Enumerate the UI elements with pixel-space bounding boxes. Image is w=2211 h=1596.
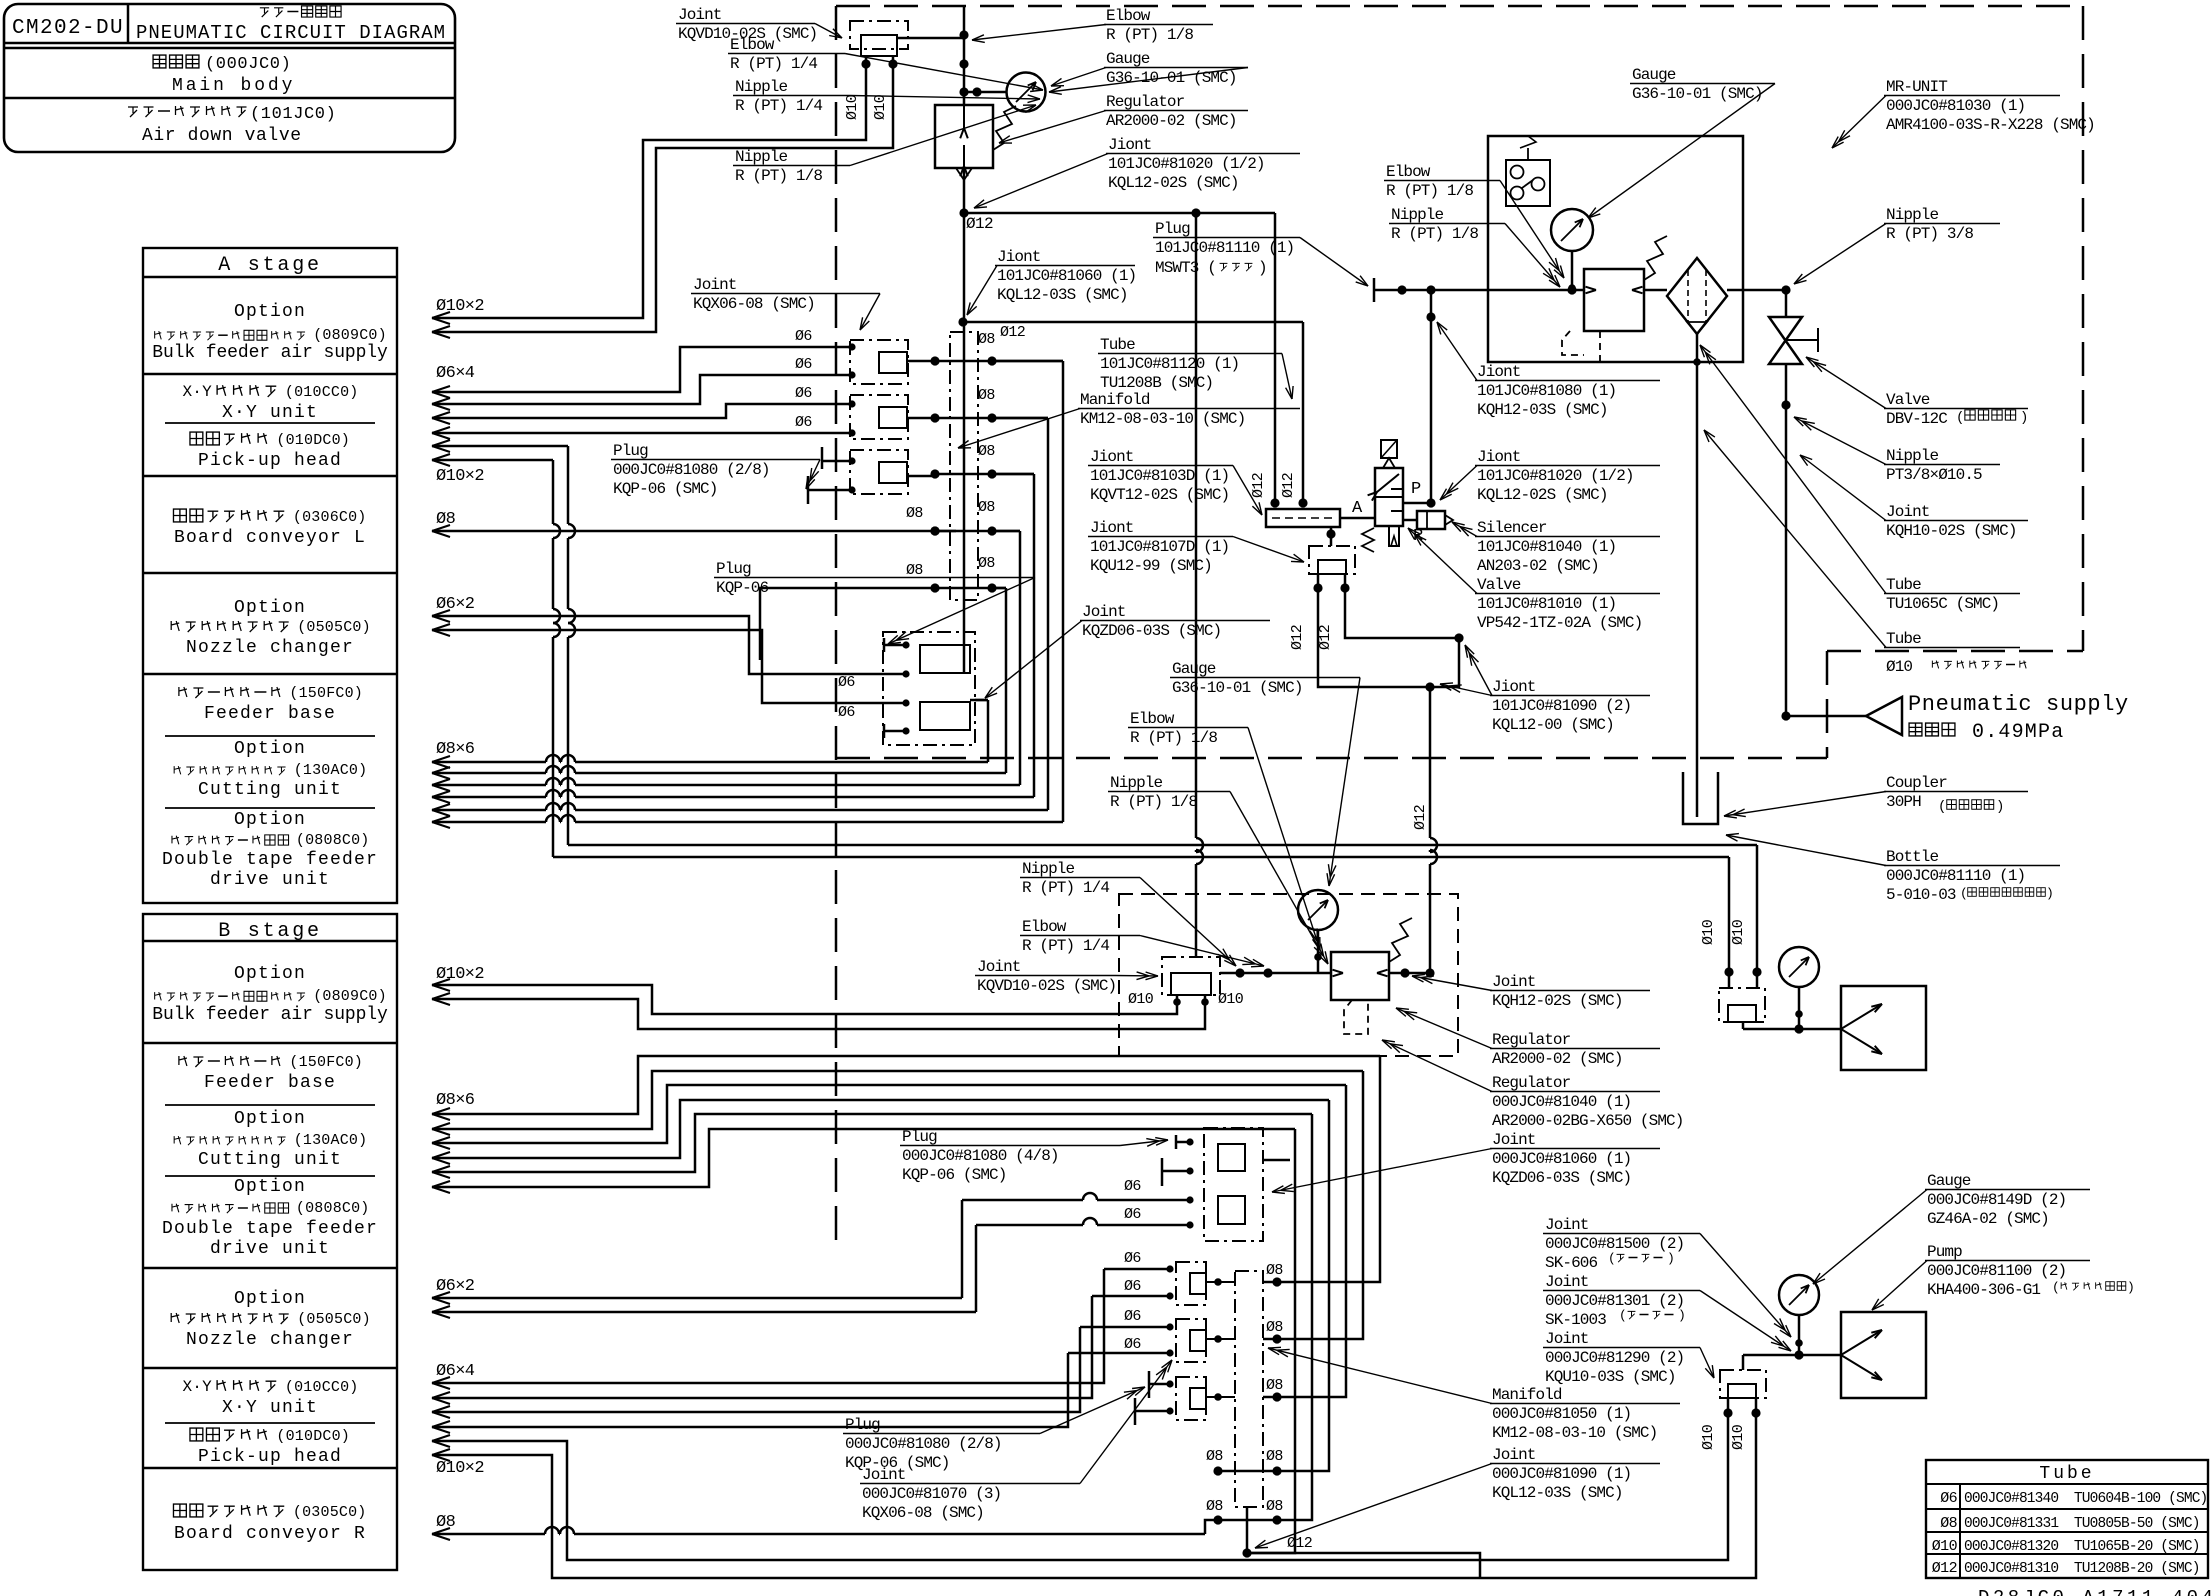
wire Ø6 e <box>432 610 903 674</box>
label R <box>1413 527 1423 546</box>
wire Ø6 B 4 <box>432 1353 1170 1433</box>
svg-text:Ø12: Ø12 <box>1289 625 1306 650</box>
gauge G36-10-01 (MR) <box>1551 209 1593 292</box>
label DBV jp <box>1956 410 2028 426</box>
label joint SK-606 <box>1543 1216 1791 1337</box>
wire Ø10 long a <box>432 440 1757 972</box>
label MR-UNIT <box>1832 78 2095 148</box>
svg-text:AR2000-02 (SMC): AR2000-02 (SMC) <box>1106 112 1237 130</box>
svg-text:G36-10-01 (SMC): G36-10-01 (SMC) <box>1632 85 1763 103</box>
svg-text:KQZD06-03S (SMC): KQZD06-03S (SMC) <box>1492 1169 1631 1187</box>
svg-text:Nipple: Nipple <box>1886 206 1939 224</box>
svg-text:(0505C0): (0505C0) <box>297 619 371 636</box>
label joint 81090 B <box>1255 1446 1660 1548</box>
svg-text:Ø6×4: Ø6×4 <box>436 364 475 383</box>
svg-text:R (PT) 3/8: R (PT) 3/8 <box>1886 225 1973 243</box>
joint KQZD06-03S (B) <box>1124 1128 1290 1241</box>
svg-text:Ø8: Ø8 <box>1206 1448 1223 1465</box>
svg-text:101JC0#8107D (1): 101JC0#8107D (1) <box>1090 538 1229 556</box>
svg-text:Joint: Joint <box>693 276 737 294</box>
svg-text:): ) <box>1678 1308 1686 1323</box>
svg-text:Ø6: Ø6 <box>1124 1308 1141 1325</box>
label gauge top <box>1049 50 1248 94</box>
wire Ø6 f <box>432 624 903 703</box>
svg-text:KQP-06 (SMC): KQP-06 (SMC) <box>613 480 717 498</box>
label jiont 81060 <box>967 248 1136 315</box>
valve VP542-1TZ-02A <box>1362 440 1403 552</box>
svg-text:000JC0#81030 (1): 000JC0#81030 (1) <box>1886 97 2025 115</box>
label joint KQH10 <box>1800 455 2028 540</box>
wire <box>1389 968 1435 977</box>
svg-text:Bulk feeder air supply: Bulk feeder air supply <box>152 1005 388 1025</box>
svg-text:Ø6×2: Ø6×2 <box>436 1277 474 1296</box>
svg-text:Pick-up head: Pick-up head <box>198 451 342 471</box>
svg-text:000JC0#81110 (1): 000JC0#81110 (1) <box>1886 867 2025 885</box>
wire Ø8 bundle 3 <box>432 474 1034 803</box>
svg-text:000JC0#8149D (2): 000JC0#8149D (2) <box>1927 1191 2066 1209</box>
wire Ø12 riser <box>959 6 968 672</box>
svg-text:KQZD06-03S (SMC): KQZD06-03S (SMC) <box>1082 622 1221 640</box>
svg-text:Ø10: Ø10 <box>1730 1424 1747 1450</box>
supply line <box>1374 278 1791 302</box>
svg-text:Air down valve: Air down valve <box>142 126 302 146</box>
svg-text:Regulator: Regulator <box>1492 1074 1571 1092</box>
svg-text:R (PT) 1/4: R (PT) 1/4 <box>1022 879 1109 897</box>
svg-text:Joint: Joint <box>1492 1446 1536 1464</box>
label regulator B <box>1396 1008 1660 1068</box>
svg-text:X·Y: X·Y <box>183 1378 213 1396</box>
svg-text:Joint: Joint <box>1082 603 1126 621</box>
wire <box>992 417 1048 420</box>
svg-text:Ø6: Ø6 <box>1124 1178 1141 1195</box>
svg-text:KM12-08-03-10 (SMC): KM12-08-03-10 (SMC) <box>1080 410 1245 428</box>
svg-text:VP542-1TZ-02A (SMC): VP542-1TZ-02A (SMC) <box>1477 614 1642 632</box>
wire Ø8 bundle 1 <box>432 361 1063 828</box>
svg-text:): ) <box>1996 799 2004 815</box>
svg-text:TU1208B (SMC): TU1208B (SMC) <box>1100 374 1213 392</box>
label gauge B <box>1170 660 1360 886</box>
label plug KQP-06 <box>714 560 1035 644</box>
wire <box>1426 290 1435 503</box>
label nipple 3/8 <box>1794 206 2000 284</box>
label tube hose <box>1704 430 2020 648</box>
svg-text:Ø10: Ø10 <box>1932 1538 1958 1555</box>
svg-text:101JC0#81120 (1): 101JC0#81120 (1) <box>1100 355 1239 373</box>
wire Ø10 B a <box>432 965 1177 1014</box>
svg-text:Elbow: Elbow <box>1130 710 1175 728</box>
wire <box>1318 574 1435 692</box>
svg-text:Option: Option <box>234 598 306 618</box>
wire <box>958 317 1303 503</box>
svg-text:Feeder base: Feeder base <box>204 704 336 724</box>
svg-text:Ø6: Ø6 <box>795 385 812 402</box>
svg-text:000JC0#81310 TU1208B-20 (SMC): 000JC0#81310 TU1208B-20 (SMC) <box>1964 1561 2200 1577</box>
svg-text:000JC0#81080 (2/8): 000JC0#81080 (2/8) <box>613 461 770 479</box>
label gauge GZ46 <box>1813 1172 2090 1284</box>
wire <box>964 208 1275 503</box>
svg-text:Jiont: Jiont <box>1090 448 1134 466</box>
svg-text:R (PT) 1/4: R (PT) 1/4 <box>735 97 822 115</box>
label regulator B2 <box>1382 1040 1683 1130</box>
svg-text:R (PT) 1/8: R (PT) 1/8 <box>1386 182 1473 200</box>
svg-text:101JC0#81060 (1): 101JC0#81060 (1) <box>997 267 1136 285</box>
svg-text:101JC0#81010 (1): 101JC0#81010 (1) <box>1477 595 1616 613</box>
label elbow B 1/8 <box>1128 710 1320 950</box>
svg-text:Option: Option <box>234 302 306 322</box>
svg-text:Nipple: Nipple <box>1391 206 1444 224</box>
svg-text:KQX06-08 (SMC): KQX06-08 (SMC) <box>862 1504 984 1522</box>
svg-text:Option: Option <box>234 1109 306 1129</box>
svg-text:101JC0#81020 (1/2): 101JC0#81020 (1/2) <box>1477 467 1634 485</box>
label manifold B <box>1268 1347 1680 1442</box>
lock indicator <box>1506 136 1550 206</box>
svg-text:Ø12: Ø12 <box>1250 473 1267 498</box>
svg-text:X·Y unit: X·Y unit <box>222 403 318 423</box>
B stage table <box>143 914 397 1570</box>
label regulator top <box>999 93 1248 143</box>
svg-text:GZ46A-02 (SMC): GZ46A-02 (SMC) <box>1927 1210 2049 1228</box>
svg-text:(: ( <box>1608 1251 1616 1266</box>
svg-text:Ø6: Ø6 <box>838 674 855 691</box>
joint KQZD06-03S (A) <box>883 632 988 745</box>
wire B supply riser <box>1196 213 1203 957</box>
svg-text:Jiont: Jiont <box>1492 678 1536 696</box>
label coupler jp <box>1938 799 2004 815</box>
svg-text:Board conveyor R: Board conveyor R <box>174 1524 366 1544</box>
svg-text:Ø8: Ø8 <box>978 555 995 572</box>
wire Ø6 B 3 <box>432 1327 1170 1418</box>
svg-text:SK-1003: SK-1003 <box>1545 1311 1606 1329</box>
svg-text:Ø8: Ø8 <box>1266 1377 1283 1394</box>
svg-text:R (PT) 1/8: R (PT) 1/8 <box>1110 793 1197 811</box>
svg-text:Option: Option <box>234 1177 306 1197</box>
svg-text:101JC0#8103D (1): 101JC0#8103D (1) <box>1090 467 1229 485</box>
svg-text:Manifold: Manifold <box>1492 1386 1562 1404</box>
svg-text:Cutting unit: Cutting unit <box>198 1150 342 1170</box>
gauge G36-10-01 (top) <box>964 73 1046 112</box>
label nipple B 1/4 <box>1020 860 1236 966</box>
svg-text:KQU12-99 (SMC): KQU12-99 (SMC) <box>1090 557 1212 575</box>
svg-text:000JC0#81080 (2/8): 000JC0#81080 (2/8) <box>845 1435 1002 1453</box>
svg-text:000JC0#81040 (1): 000JC0#81040 (1) <box>1492 1093 1631 1111</box>
label pump <box>1872 1243 2090 1310</box>
label tube TU1065C <box>1700 345 2020 613</box>
label A <box>1352 499 1363 518</box>
svg-text:Elbow: Elbow <box>1022 918 1067 936</box>
svg-text:Joint: Joint <box>1545 1330 1589 1348</box>
label joint KQU10 <box>1543 1330 1714 1386</box>
svg-text:AR2000-02BG-X650 (SMC): AR2000-02BG-X650 (SMC) <box>1492 1112 1683 1130</box>
svg-text:Joint: Joint <box>1492 1131 1536 1149</box>
svg-text:000JC0#81290 (2): 000JC0#81290 (2) <box>1545 1349 1684 1367</box>
label silencer <box>1452 519 1660 575</box>
svg-text:Ø8: Ø8 <box>1266 1262 1283 1279</box>
svg-text:Ø12: Ø12 <box>1000 324 1025 341</box>
svg-text:Gauge: Gauge <box>1172 660 1216 678</box>
wire Ø8 B 2 <box>432 1071 1363 1339</box>
wire Ø12 down <box>1412 687 1437 973</box>
svg-text:Ø6: Ø6 <box>1940 1490 1957 1507</box>
svg-text:(150FC0): (150FC0) <box>289 1054 363 1071</box>
label SK606 jp <box>1608 1251 1675 1266</box>
label joint 81070 B <box>860 1360 1172 1522</box>
svg-text:KQH12-03S (SMC): KQH12-03S (SMC) <box>1477 401 1608 419</box>
wire Ø8 B bundle labels <box>436 1091 484 1532</box>
svg-text:KHA400-306-G1: KHA400-306-G1 <box>1927 1281 2040 1299</box>
label nipple 1/4 <box>733 78 1040 115</box>
wire <box>1345 574 1464 687</box>
svg-text:KQL12-03S (SMC): KQL12-03S (SMC) <box>1492 1484 1623 1502</box>
wire Ø6 a <box>432 347 849 398</box>
svg-text:Ø12: Ø12 <box>1280 473 1297 498</box>
labels Ø6 <box>795 328 812 431</box>
label plug 2/8 B <box>843 1387 1145 1472</box>
wire Ø6 d <box>432 427 849 439</box>
label SK1003 jp <box>1619 1308 1686 1323</box>
svg-text:KQP-06: KQP-06 <box>716 579 769 597</box>
svg-text:101JC0#81040 (1): 101JC0#81040 (1) <box>1477 538 1616 556</box>
svg-text:(0809C0): (0809C0) <box>313 988 387 1005</box>
svg-text:KQL12-02S (SMC): KQL12-02S (SMC) <box>1477 486 1608 504</box>
label nipple B 1/8 <box>1108 774 1328 964</box>
pneumatic supply text <box>1908 692 2129 744</box>
svg-text:CM202-DU: CM202-DU <box>12 17 124 40</box>
svg-text:R (PT) 1/8: R (PT) 1/8 <box>1106 26 1193 44</box>
svg-text:R (PT) 1/8: R (PT) 1/8 <box>735 167 822 185</box>
wire Ø6 B pair b <box>432 1218 1190 1318</box>
svg-text:Ø10: Ø10 <box>844 94 861 120</box>
svg-text:000JC0#81331 TU0805B-50 (SMC): 000JC0#81331 TU0805B-50 (SMC) <box>1964 1516 2200 1532</box>
svg-text:KQX06-08 (SMC): KQX06-08 (SMC) <box>693 295 815 313</box>
svg-text:Ø10: Ø10 <box>1700 1424 1717 1450</box>
wire Ø6 b <box>432 375 849 410</box>
svg-text:Option: Option <box>234 810 306 830</box>
svg-text:0.49MPa: 0.49MPa <box>1972 721 2064 744</box>
label MSWT3 jp <box>1155 259 1267 277</box>
svg-text:Ø6: Ø6 <box>838 704 855 721</box>
svg-text:Pick-up head: Pick-up head <box>198 1447 342 1467</box>
svg-text:(: ( <box>2052 1280 2060 1295</box>
svg-text:Elbow: Elbow <box>1386 163 1431 181</box>
svg-text:): ) <box>2127 1280 2135 1295</box>
wire <box>1340 517 1375 520</box>
svg-text:Double tape feeder: Double tape feeder <box>162 1219 378 1239</box>
svg-text:(101JC0): (101JC0) <box>250 105 336 124</box>
svg-text:X·Y unit: X·Y unit <box>222 1398 318 1418</box>
svg-text:Main body: Main body <box>172 76 295 96</box>
svg-text:000JC0#81090 (1): 000JC0#81090 (1) <box>1492 1465 1631 1483</box>
svg-text:Ø6: Ø6 <box>1124 1278 1141 1295</box>
A-stage bundle labels <box>436 297 484 759</box>
label nipple MR <box>1389 206 1560 287</box>
svg-text:Ø6: Ø6 <box>795 356 812 373</box>
svg-text:Ø8×6: Ø8×6 <box>436 1091 475 1110</box>
svg-text:KQL12-02S (SMC): KQL12-02S (SMC) <box>1108 174 1239 192</box>
svg-text:MSWT3 (: MSWT3 ( <box>1155 259 1216 277</box>
svg-text:Tube: Tube <box>1886 576 1921 594</box>
joint KQVD10-02S (B) <box>1128 957 1244 1008</box>
svg-text:000JC0#81301 (2): 000JC0#81301 (2) <box>1545 1292 1684 1310</box>
svg-text:Valve: Valve <box>1477 576 1521 594</box>
wire filter drain <box>1693 334 1701 817</box>
label gauge MR <box>1588 66 1775 218</box>
svg-text:Ø6×2: Ø6×2 <box>436 595 474 614</box>
svg-text:(: ( <box>1938 799 1946 815</box>
svg-text:TU1065C (SMC): TU1065C (SMC) <box>1886 595 1999 613</box>
label joint KQH12-02S <box>1412 973 1650 1010</box>
svg-text:Joint: Joint <box>1886 503 1930 521</box>
svg-text:P: P <box>1411 480 1421 499</box>
svg-text:): ) <box>1258 259 1267 277</box>
svg-text:30PH: 30PH <box>1886 793 1921 811</box>
svg-text:Option: Option <box>234 739 306 759</box>
label manifold A <box>958 391 1300 448</box>
svg-text:Option: Option <box>234 964 306 984</box>
wire Ø6 B 2 <box>432 1296 1170 1404</box>
svg-text:101JC0#81020 (1/2): 101JC0#81020 (1/2) <box>1108 155 1265 173</box>
wire Ø8 B 1 <box>432 1056 1380 1282</box>
label plug MSWT3 <box>1153 220 1368 286</box>
svg-text:Jiont: Jiont <box>997 248 1041 266</box>
label elbow 1/4 <box>728 36 1043 92</box>
svg-text:Regulator: Regulator <box>1106 93 1185 111</box>
svg-text:KQVD10-02S (SMC): KQVD10-02S (SMC) <box>977 977 1116 995</box>
svg-text:Ø8: Ø8 <box>978 499 995 516</box>
svg-text:KQH10-02S (SMC): KQH10-02S (SMC) <box>1886 522 2017 540</box>
svg-text:MR-UNIT: MR-UNIT <box>1886 78 1947 96</box>
svg-text:Jiont: Jiont <box>1090 519 1134 537</box>
svg-text:Ø6: Ø6 <box>795 414 812 431</box>
svg-text:G36-10-01 (SMC): G36-10-01 (SMC) <box>1172 679 1303 697</box>
svg-text:Nozzle changer: Nozzle changer <box>186 638 354 658</box>
svg-text:KQVT12-02S (SMC): KQVT12-02S (SMC) <box>1090 486 1229 504</box>
svg-text:Tube: Tube <box>1100 336 1135 354</box>
joint KQU12-99 <box>1289 527 1355 650</box>
label coupler <box>1724 774 2028 818</box>
svg-text:Ø10: Ø10 <box>1886 658 1912 676</box>
svg-text:000JC0#81100 (2): 000JC0#81100 (2) <box>1927 1262 2066 1280</box>
svg-text:Ø10×2: Ø10×2 <box>436 297 484 316</box>
svg-text:Plug: Plug <box>613 442 648 460</box>
svg-text:DBV-12C: DBV-12C <box>1886 410 1947 428</box>
svg-text:Joint: Joint <box>1545 1216 1589 1234</box>
label elbow 1/8 <box>972 7 1213 44</box>
svg-text:Ø8: Ø8 <box>978 387 995 404</box>
svg-text:drive unit: drive unit <box>210 870 330 890</box>
pump KHA400-306-G1 <box>1700 1275 1926 1450</box>
wire <box>897 37 964 40</box>
svg-text:Ø12: Ø12 <box>1287 1535 1312 1552</box>
label hose jp <box>1886 658 2026 676</box>
svg-text:Jiont: Jiont <box>1477 448 1521 466</box>
svg-text:Ø8: Ø8 <box>1940 1515 1957 1532</box>
svg-text:(0808C0): (0808C0) <box>296 1200 370 1217</box>
svg-text:PT3/8×Ø10.5: PT3/8×Ø10.5 <box>1886 466 1982 484</box>
svg-text:D28JC0-A1711 4046 A3: D28JC0-A1711 4046 A3 <box>1978 1587 2211 1596</box>
svg-text:Ø10×2: Ø10×2 <box>436 965 484 984</box>
wire Ø10 B b <box>432 993 1205 1029</box>
svg-text:Ø8: Ø8 <box>978 443 995 460</box>
plug bars (B) <box>1135 1371 1170 1425</box>
label joint KQZD06 B <box>1272 1131 1660 1193</box>
label tube TU1208B <box>1098 336 1293 399</box>
svg-text:KM12-08-03-10 (SMC): KM12-08-03-10 (SMC) <box>1492 1424 1657 1442</box>
label bottle <box>1726 834 2060 904</box>
svg-text:Ø6: Ø6 <box>1124 1250 1141 1267</box>
svg-text:Ø8×6: Ø8×6 <box>436 740 475 759</box>
svg-text:Pump: Pump <box>1927 1243 1962 1261</box>
svg-text:(0808C0): (0808C0) <box>296 832 370 849</box>
label nipple PT3/8 <box>1794 417 2000 484</box>
label jiont KQVT <box>1088 448 1262 515</box>
svg-text:Ø8: Ø8 <box>906 505 923 522</box>
svg-text:Ø10×2: Ø10×2 <box>436 467 484 486</box>
svg-text:SK-606: SK-606 <box>1545 1254 1598 1272</box>
label Ø12 <box>966 215 993 233</box>
label jiont 81080 <box>1437 322 1660 419</box>
svg-text:5-010-03: 5-010-03 <box>1886 886 1956 904</box>
wire <box>992 530 1020 533</box>
svg-text:(130AC0): (130AC0) <box>294 1132 368 1149</box>
svg-text:(000JC0): (000JC0) <box>205 55 291 74</box>
filter <box>1667 258 1727 334</box>
svg-text:): ) <box>1667 1251 1675 1266</box>
svg-text:101JC0#81080 (1): 101JC0#81080 (1) <box>1477 382 1616 400</box>
svg-text:Nipple: Nipple <box>1886 447 1939 465</box>
svg-text:AN203-02 (SMC): AN203-02 (SMC) <box>1477 557 1599 575</box>
svg-text:Plug: Plug <box>1155 220 1190 238</box>
svg-text:Ø6: Ø6 <box>1124 1206 1141 1223</box>
svg-text:Ø8: Ø8 <box>1206 1498 1223 1515</box>
svg-text:(010CC0): (010CC0) <box>285 384 359 401</box>
main body dashed boundary <box>836 6 2083 1250</box>
label valve VP542 <box>1408 528 1660 632</box>
joint KQX06-08 #1 <box>848 340 935 384</box>
svg-text:Ø12: Ø12 <box>1932 1560 1957 1577</box>
svg-text:101JC0#81090 (2): 101JC0#81090 (2) <box>1492 697 1631 715</box>
MR unit box <box>1488 136 1743 362</box>
joint KQX06-08 B#3 <box>1166 1377 1235 1420</box>
blow valve assembly (right middle) <box>1700 919 1926 1070</box>
svg-text:drive unit: drive unit <box>210 1239 330 1259</box>
node Ø10 pair <box>844 59 898 120</box>
svg-text:Joint: Joint <box>977 958 1021 976</box>
svg-text:(0505C0): (0505C0) <box>297 1311 371 1328</box>
wire Ø8 B 3 <box>432 1085 1346 1397</box>
gauge (B stage) <box>1220 890 1338 978</box>
svg-text:000JC0#81320 TU1065B-20 (SMC): 000JC0#81320 TU1065B-20 (SMC) <box>1964 1539 2200 1555</box>
svg-text:Nipple: Nipple <box>735 148 788 166</box>
svg-text:Regulator: Regulator <box>1492 1031 1571 1049</box>
manifold KQVT12-02S <box>1250 473 1340 527</box>
svg-text:Ø12: Ø12 <box>966 215 993 233</box>
svg-text:): ) <box>2020 410 2028 426</box>
svg-text:Coupler: Coupler <box>1886 774 1947 792</box>
svg-text:Joint: Joint <box>1492 973 1536 991</box>
svg-text:Double tape feeder: Double tape feeder <box>162 850 378 870</box>
svg-text:Gauge: Gauge <box>1632 66 1676 84</box>
wire <box>432 56 893 338</box>
svg-text:Ø10: Ø10 <box>1218 991 1244 1008</box>
svg-text:Jiont: Jiont <box>1108 136 1152 154</box>
svg-text:Ø8: Ø8 <box>978 331 995 348</box>
label joint KQVD10 top <box>676 6 842 43</box>
wire Ø10 long b <box>432 454 1729 972</box>
wire <box>432 56 866 324</box>
wire Ø6 B pair a <box>432 1193 1190 1304</box>
svg-text:101JC0#81110 (1): 101JC0#81110 (1) <box>1155 239 1294 257</box>
svg-text:Ø6×4: Ø6×4 <box>436 1362 475 1381</box>
